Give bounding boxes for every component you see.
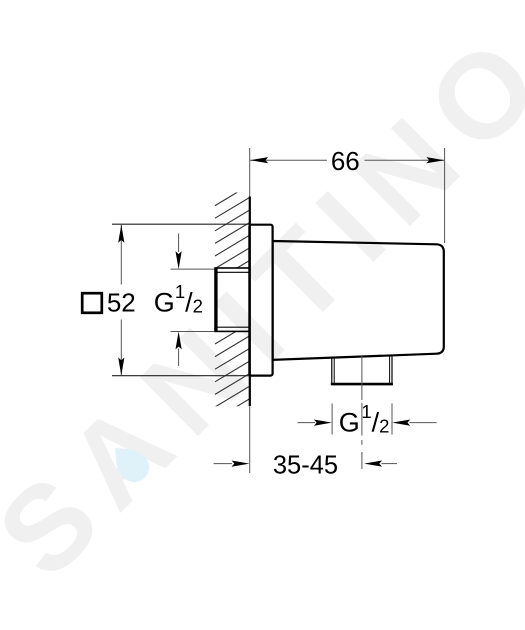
outlet thread inner right line — [389, 356, 391, 384]
G1/2 inlet lower arrow shaft — [178, 349, 180, 367]
G1/2 outlet dim: right extension line — [391, 404, 393, 435]
inlet thick end face — [215, 268, 218, 332]
outlet thread inner left line — [333, 358, 335, 384]
35-45 right arrow shaft — [382, 463, 398, 465]
extension line below wall (for 35-45) — [249, 406, 251, 473]
G1/2 outlet dim: left extension line — [331, 404, 333, 435]
wall hatching lower band — [215, 323, 250, 432]
66 right arrow — [426, 157, 444, 163]
outlet thick end face — [331, 383, 393, 386]
svg-text:SANITINO: SANITINO — [0, 3, 525, 603]
inlet thread inner top line — [215, 271, 250, 273]
66 dimension line left segment — [250, 159, 327, 161]
35-45 dim: left arrow shaft — [214, 463, 232, 465]
66 left arrow — [250, 157, 268, 163]
wall hatching upper band — [215, 185, 250, 294]
svg-text:35-45: 35-45 — [273, 452, 338, 480]
G1/2 inlet upper arrow — [176, 251, 182, 269]
52 dimension: top extension line — [112, 223, 249, 225]
52 bottom arrow — [118, 358, 124, 376]
66 dimension: right extension line — [444, 148, 446, 243]
52 dimension: bottom extension line — [112, 375, 249, 377]
52 top arrow — [118, 225, 124, 243]
extension line above wall (for 66) — [249, 148, 251, 197]
svg-text:66: 66 — [331, 146, 360, 176]
flange (square escutcheon) — [249, 225, 272, 376]
watermark cyan droplet — [104, 437, 155, 488]
52 dimension line lower segment — [120, 320, 122, 376]
outlet centerline — [361, 356, 363, 469]
66 dimension line right segment — [365, 159, 445, 161]
svg-text:G1/2: G1/2 — [339, 401, 390, 438]
body of wall union — [273, 241, 444, 360]
svg-text:52: 52 — [107, 287, 136, 317]
G1/2 inlet upper arrow shaft — [178, 234, 180, 253]
G1/2 outlet right arrow — [392, 420, 410, 426]
G1/2 outlet left arrow shaft — [298, 422, 316, 424]
G1/2 inlet dim: bottom extension line — [171, 331, 215, 333]
52 dimension line upper segment — [120, 225, 122, 285]
outlet thread outer right line — [391, 356, 393, 385]
G1/2 inlet lower arrow — [176, 331, 182, 349]
square symbol — [82, 293, 102, 313]
G1/2 inlet dim: top extension line — [171, 268, 215, 270]
inlet thread inner bottom line — [215, 326, 250, 328]
G1/2 outlet left arrow — [314, 420, 332, 426]
35-45 right arrow — [364, 461, 382, 467]
wall face line — [249, 197, 251, 407]
outlet thread outer left line — [331, 358, 333, 385]
back inlet thread outer rect — [215, 268, 250, 331]
35-45 left arrow — [232, 461, 250, 467]
G1/2 outlet right arrow shaft — [410, 422, 437, 424]
